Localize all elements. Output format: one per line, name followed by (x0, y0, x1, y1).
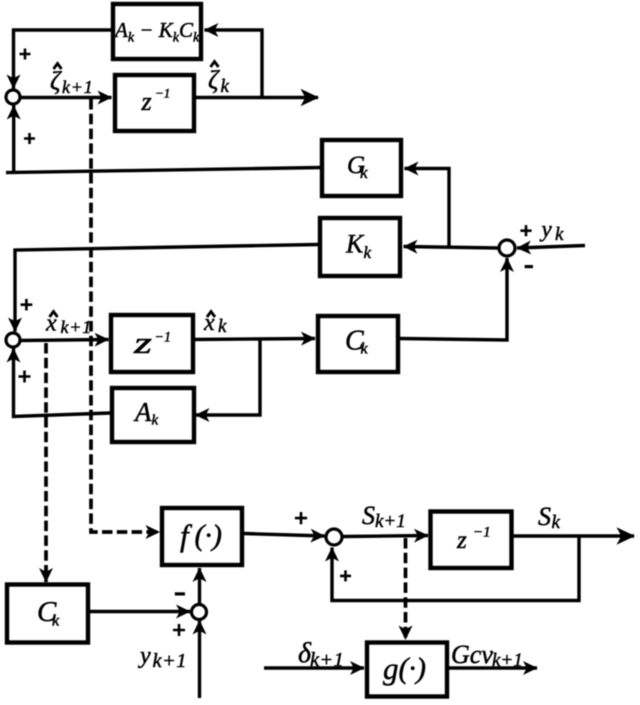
svg-text:K: K (345, 230, 365, 259)
svg-text:A: A (133, 397, 152, 427)
svg-text:g: g (383, 651, 399, 686)
svg-text:−1: −1 (155, 330, 172, 346)
svg-text:k+1: k+1 (375, 511, 406, 532)
svg-text:y: y (138, 643, 151, 669)
svg-text:S: S (538, 502, 551, 531)
svg-text:k: k (360, 163, 368, 182)
svg-text:z: z (456, 527, 467, 554)
svg-text:k: k (552, 512, 561, 533)
svg-text:k+1: k+1 (492, 650, 523, 671)
svg-text:y: y (540, 217, 553, 242)
svg-text:k: k (218, 316, 227, 337)
svg-text:k: k (361, 341, 369, 358)
svg-text:k: k (364, 243, 372, 262)
svg-text:Gcv: Gcv (451, 640, 493, 669)
svg-text:k+1: k+1 (62, 77, 94, 97)
svg-text:z: z (141, 87, 152, 116)
svg-text:k+1: k+1 (153, 650, 187, 672)
svg-text:S: S (362, 501, 375, 530)
svg-text:k: k (52, 613, 60, 630)
svg-text:(·): (·) (195, 519, 222, 552)
svg-text:−1: −1 (155, 86, 170, 101)
svg-text:(·): (·) (399, 652, 426, 685)
svg-text:k: k (555, 224, 564, 245)
svg-text:ζ: ζ (50, 67, 62, 96)
svg-text:Ak − KkCk: Ak − KkCk (113, 18, 200, 46)
svg-text:k+1: k+1 (310, 649, 344, 671)
svg-text:k: k (221, 76, 230, 97)
svg-text:ζ: ζ (208, 66, 220, 95)
svg-text:z: z (133, 325, 152, 360)
svg-text:k+1: k+1 (61, 317, 93, 337)
svg-text:−1: −1 (473, 525, 491, 541)
svg-text:k: k (152, 413, 159, 429)
